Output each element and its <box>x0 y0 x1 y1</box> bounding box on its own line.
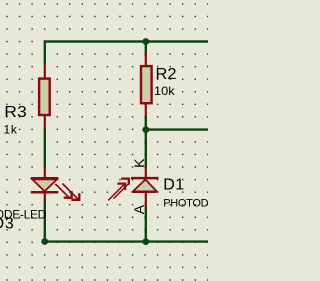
junction bottom at D1 <box>142 238 149 245</box>
LED D3 <box>31 166 59 199</box>
wire LED D3 to bottom net <box>44 199 46 242</box>
junction bottom left at D3 <box>41 238 48 245</box>
wire R2 bottom to middle junction <box>145 116 147 130</box>
svg-text:R3: R3 <box>4 104 27 121</box>
svg-text:D3: D3 <box>0 216 14 233</box>
svg-text:PHOTODIODE: PHOTODIODE <box>163 198 208 210</box>
wire top horizontal net <box>44 40 208 42</box>
photodiode D1 incident arrow 1 (inner) <box>108 184 125 201</box>
svg-text:K: K <box>131 158 147 168</box>
svg-text:10k: 10k <box>154 84 176 98</box>
svg-text:A: A <box>131 204 147 214</box>
photodiode D1 <box>131 167 158 208</box>
resistor R2 <box>141 52 152 117</box>
svg-text:R2: R2 <box>156 66 177 83</box>
wire middle junction to photodiode D1 <box>145 130 147 167</box>
wire bottom horizontal net <box>45 240 208 242</box>
wire left vertical segment (top corner to R3) <box>44 41 46 64</box>
LED D3 emission arrow 1 <box>55 184 71 199</box>
junction top at R2 <box>142 38 149 45</box>
svg-text:D1: D1 <box>163 176 184 193</box>
wire R3 bottom to LED D3 <box>44 128 46 167</box>
wire top junction to R2 <box>145 42 147 53</box>
wire middle horizontal net <box>146 128 208 130</box>
resistor R3 <box>39 63 50 128</box>
photodiode D1 incident arrow 2 (outer) <box>114 179 129 199</box>
wire photodiode D1 to bottom net <box>145 207 147 242</box>
svg-text:1k: 1k <box>4 122 18 136</box>
LED D3 emission arrow 2 <box>62 184 79 200</box>
junction middle at R2 bottom <box>142 126 149 133</box>
